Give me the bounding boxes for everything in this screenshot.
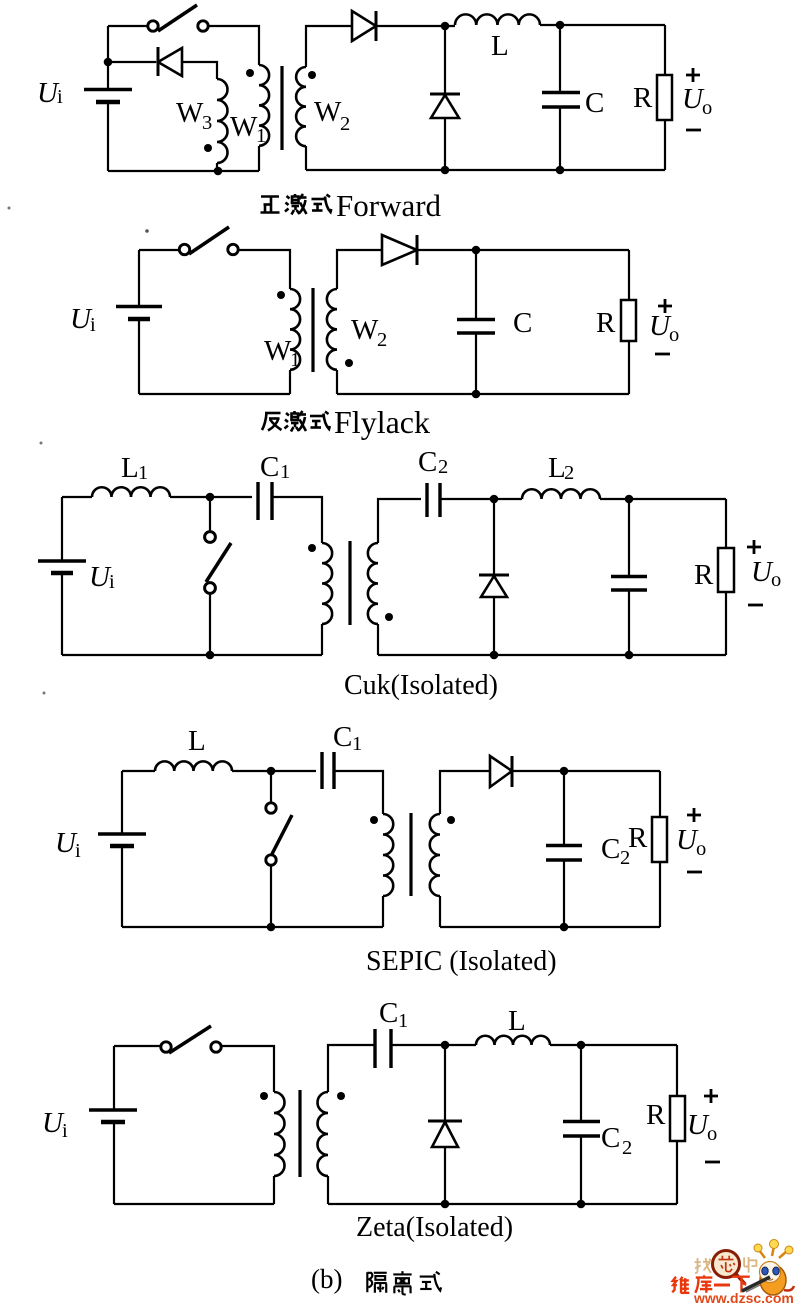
wire L1 to C1	[170, 496, 252, 498]
svg-text:2: 2	[438, 456, 448, 478]
node D	[490, 651, 499, 660]
svg-text:Flylack: Flylack	[334, 404, 430, 440]
resistor R wires	[676, 1045, 678, 1204]
wire C2 to L2	[440, 498, 522, 500]
wire top rail right of switch	[208, 26, 259, 65]
dot W1	[370, 816, 378, 824]
speck	[145, 229, 149, 233]
resistor R wires	[628, 250, 630, 394]
mascot body	[760, 1265, 786, 1295]
wire bottom rail secondary	[337, 393, 629, 395]
capacitor C wire top	[559, 25, 561, 92]
capacitor C1	[256, 482, 259, 520]
wire W1 bottom	[258, 146, 260, 171]
logo wei char	[672, 1277, 689, 1293]
wire top rail to W1	[237, 250, 290, 289]
capacitor C	[542, 91, 580, 94]
capacitor C3	[611, 575, 647, 578]
capacitor C2	[546, 844, 582, 847]
diode D1 wire	[444, 1045, 446, 1121]
wire L to C1	[232, 770, 316, 772]
wire bottom rail primary	[122, 926, 383, 928]
minus sign	[748, 604, 763, 607]
wire C1 to winding	[334, 771, 383, 814]
wire W1 bottom	[273, 1176, 275, 1204]
core T1	[348, 541, 351, 625]
svg-text:R: R	[628, 822, 648, 854]
switch S	[179, 244, 189, 254]
resistor R	[670, 1096, 685, 1141]
svg-text:2: 2	[622, 1137, 632, 1159]
svg-text:1: 1	[290, 349, 300, 371]
winding W2	[318, 1092, 329, 1176]
battery Ui	[84, 88, 132, 92]
capacitor C2 wires	[563, 771, 565, 927]
node B	[214, 167, 223, 176]
node D	[556, 21, 565, 30]
battery Ui	[89, 1108, 137, 1112]
dot W2	[308, 71, 316, 79]
dot W2	[345, 359, 353, 367]
capacitor C wires	[475, 250, 477, 394]
inductor L2	[522, 489, 600, 499]
wire W2 bottom	[327, 1176, 329, 1204]
magnifier ring	[713, 1251, 740, 1278]
svg-text:L: L	[188, 725, 206, 757]
node B	[267, 923, 276, 932]
inductor L	[455, 14, 540, 25]
inductor L	[476, 1036, 550, 1045]
svg-text:C: C	[513, 307, 532, 339]
resistor R	[621, 300, 636, 341]
wire W3 bottom	[216, 163, 218, 171]
wire C1 to winding	[272, 497, 322, 543]
svg-text:i: i	[57, 86, 63, 108]
magnifier handle	[736, 1274, 745, 1284]
svg-text:o: o	[702, 97, 712, 119]
wire W2 top	[440, 771, 490, 814]
wire left rail	[138, 250, 140, 394]
wire left rail	[121, 771, 123, 927]
wire D2 bottom	[444, 118, 446, 170]
svg-text:i: i	[90, 314, 96, 336]
wire bottom rail primary	[108, 170, 259, 172]
svg-text:Forward: Forward	[336, 188, 442, 223]
capacitor C	[457, 318, 495, 321]
dot W1	[246, 69, 254, 77]
wire L to right	[540, 24, 665, 26]
svg-text:C: C	[585, 87, 604, 119]
svg-text:i: i	[62, 1120, 68, 1142]
plus sign	[687, 808, 701, 822]
magnifier xin char	[719, 1256, 735, 1272]
capacitor C1	[373, 1029, 376, 1068]
node D	[560, 923, 569, 932]
winding W2	[368, 543, 378, 624]
wire bottom rail secondary	[328, 1203, 677, 1205]
svg-text:R: R	[694, 559, 714, 591]
battery Ui	[98, 832, 146, 836]
wire top rail	[114, 1045, 161, 1047]
svg-text:C: C	[601, 1122, 620, 1154]
wire top rail left	[122, 770, 155, 772]
node B	[441, 1200, 450, 1209]
resistor R	[718, 548, 734, 592]
mascot arm stick	[742, 1277, 770, 1291]
speck	[8, 207, 11, 210]
node B	[206, 651, 215, 660]
mascot mouth	[767, 1279, 773, 1280]
diode D3	[157, 47, 160, 76]
wire bottom rail primary	[139, 393, 290, 395]
plus sign	[686, 68, 700, 82]
wire diode to W3	[182, 62, 217, 79]
wire node to diode	[108, 61, 156, 63]
node E	[625, 495, 634, 504]
node F	[556, 166, 565, 175]
mascot eye right	[773, 1267, 779, 1275]
wire left rail bottom	[107, 103, 109, 171]
logo pian char	[744, 1257, 757, 1273]
resistor R wires	[659, 771, 661, 927]
wire bottom rail secondary	[440, 926, 660, 928]
svg-text:C: C	[333, 721, 352, 753]
node D	[577, 1200, 586, 1209]
dot W2	[447, 816, 455, 824]
capacitor C2 wires	[580, 1045, 582, 1204]
svg-text:1: 1	[352, 733, 362, 755]
winding W1	[383, 814, 393, 896]
capacitor C1	[320, 752, 323, 789]
diode D1	[479, 574, 509, 577]
node A	[206, 493, 215, 502]
svg-text:o: o	[771, 569, 781, 591]
wire left rail	[113, 1046, 115, 1204]
switch S	[266, 803, 276, 813]
svg-text:W: W	[176, 97, 204, 129]
wire W2 top	[337, 250, 382, 289]
minus sign	[687, 871, 702, 874]
switch S	[205, 532, 216, 543]
wire left rail	[61, 497, 63, 655]
resistor R	[652, 817, 667, 862]
core T1	[298, 1090, 301, 1177]
wire D1 bottom	[444, 1147, 446, 1204]
node A	[267, 767, 276, 776]
diode D2 wire	[444, 26, 446, 94]
wire D1 to L	[376, 25, 455, 27]
node A	[104, 58, 113, 67]
capacitor C3 wires	[628, 499, 630, 655]
node E	[441, 166, 450, 175]
battery Ui	[38, 559, 86, 563]
core T1	[409, 813, 412, 896]
svg-text:C: C	[601, 833, 620, 865]
plus sign	[658, 299, 672, 313]
wire C1 to L	[391, 1044, 476, 1046]
wire W1 bottom	[382, 896, 384, 927]
wire W1 bottom	[321, 624, 323, 655]
capacitor C2	[425, 483, 428, 517]
winding W1	[259, 65, 269, 146]
svg-text:W: W	[230, 111, 258, 143]
svg-text:o: o	[707, 1123, 717, 1145]
svg-text:L: L	[121, 452, 139, 484]
mascot eye left	[762, 1267, 768, 1275]
svg-text:i: i	[75, 840, 81, 862]
wire L2 to right	[600, 498, 726, 500]
diode D1 wire	[493, 499, 495, 575]
wire W2 bottom	[336, 370, 338, 394]
wire top rail left	[62, 496, 92, 498]
resistor R wires	[664, 25, 666, 170]
resistor R wires	[725, 499, 727, 655]
caption 正激式 (circuit 1)	[261, 197, 280, 213]
battery Ui	[116, 305, 162, 309]
winding W2	[327, 289, 337, 370]
wire W2 bottom	[305, 146, 307, 170]
svg-text:o: o	[696, 838, 706, 860]
logo xia char	[732, 1277, 749, 1293]
dot W1	[308, 544, 316, 552]
node C	[577, 1041, 586, 1050]
diode D1	[490, 756, 512, 787]
wire D1 to R	[417, 249, 629, 251]
capacitor C wire bottom	[559, 107, 561, 170]
node A	[472, 246, 481, 255]
caption 隔离式	[367, 1272, 386, 1293]
switch S	[161, 1042, 171, 1052]
svg-text:3: 3	[202, 112, 212, 134]
svg-text:R: R	[646, 1099, 666, 1131]
wire W1 bottom	[289, 370, 291, 394]
node B	[472, 390, 481, 399]
dot W1	[260, 1092, 268, 1100]
speck	[43, 692, 46, 695]
wire bottom rail secondary	[306, 169, 665, 171]
svg-text:1: 1	[256, 125, 266, 147]
wire left rail top	[107, 26, 109, 89]
caption 反激式 (circuit 2)	[262, 413, 282, 431]
svg-text:W: W	[314, 96, 342, 128]
svg-text:L: L	[491, 30, 509, 62]
svg-text:R: R	[596, 307, 616, 339]
mascot face	[760, 1262, 781, 1283]
svg-text:i: i	[109, 571, 115, 593]
svg-text:Cuk(Isolated): Cuk(Isolated)	[344, 670, 498, 701]
wire top rail	[108, 25, 148, 27]
diode D1	[352, 11, 376, 41]
winding W3	[217, 79, 228, 163]
diode D1	[382, 235, 417, 265]
winding W1	[322, 543, 332, 624]
switch S wire	[209, 497, 211, 655]
mascot antenna 3	[779, 1251, 787, 1258]
svg-text:C: C	[379, 997, 398, 1029]
wire top rail to W1	[221, 1046, 274, 1092]
node C	[560, 767, 569, 776]
speck	[40, 442, 43, 445]
svg-text:C: C	[418, 446, 437, 478]
mascot antenna 1	[759, 1250, 765, 1258]
wire W2 top	[378, 499, 421, 543]
switch S wires	[270, 771, 272, 927]
wire W2 top	[306, 26, 352, 67]
svg-text:2: 2	[377, 329, 387, 351]
diode D1	[428, 1120, 462, 1123]
svg-text:2: 2	[564, 462, 574, 484]
svg-text:o: o	[669, 324, 679, 346]
svg-text:R: R	[633, 82, 653, 114]
svg-text:W: W	[264, 335, 292, 367]
winding W1	[290, 289, 300, 370]
plus sign	[704, 1089, 718, 1103]
logo zhao char	[695, 1258, 711, 1273]
wire W2 top	[328, 1045, 375, 1092]
switch S	[148, 21, 158, 31]
svg-text:1: 1	[280, 461, 290, 483]
wire bottom rail secondary	[378, 654, 726, 656]
wire D1 bottom	[493, 597, 495, 655]
dot W1	[277, 291, 285, 299]
logo yi char	[714, 1284, 730, 1287]
wire W2 bottom	[377, 624, 379, 655]
wire bottom rail primary	[62, 654, 322, 656]
dot W3	[204, 144, 212, 152]
svg-text:C: C	[260, 451, 279, 483]
core T1	[280, 66, 283, 150]
node C	[441, 22, 450, 31]
resistor R	[657, 75, 672, 120]
wire top rail	[139, 249, 180, 251]
logo ku char	[695, 1275, 712, 1292]
svg-text:Zeta(Isolated): Zeta(Isolated)	[356, 1212, 513, 1243]
minus sign	[686, 129, 701, 132]
wire W2 bottom	[439, 896, 441, 927]
inductor L1	[92, 487, 170, 497]
svg-text:2: 2	[340, 113, 350, 135]
wire D1 to R	[512, 770, 660, 772]
svg-text:(b): (b)	[311, 1264, 342, 1294]
mascot antenna 2	[772, 1246, 774, 1256]
svg-text:W: W	[351, 314, 379, 346]
capacitor C2	[563, 1120, 600, 1123]
winding W2	[296, 67, 306, 146]
wire bottom rail primary	[114, 1203, 274, 1205]
wire L to right	[550, 1044, 677, 1046]
plus sign	[747, 540, 761, 554]
node A	[441, 1041, 450, 1050]
core T1	[311, 288, 314, 372]
mascot tail	[784, 1286, 794, 1291]
minus sign	[655, 353, 670, 356]
svg-text:1: 1	[398, 1010, 408, 1032]
diode D2	[430, 93, 460, 96]
winding W1	[274, 1092, 285, 1176]
node C	[490, 495, 499, 504]
inductor L	[155, 761, 232, 771]
winding W2	[430, 814, 440, 896]
minus sign	[705, 1161, 720, 1164]
dot W2	[337, 1092, 345, 1100]
svg-text:1: 1	[138, 462, 148, 484]
node F	[625, 651, 634, 660]
dot W2	[385, 613, 393, 621]
svg-text:L: L	[508, 1005, 526, 1037]
svg-text:SEPIC (Isolated): SEPIC (Isolated)	[366, 946, 557, 977]
